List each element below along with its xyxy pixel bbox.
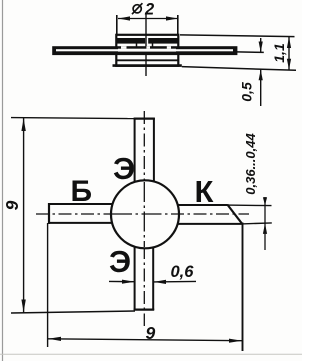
- flange line: [116, 59, 178, 61]
- front lead edge ticks: [136, 43, 138, 48]
- dimension line 9 (bottom): [48, 337, 242, 343]
- dimension 9 (bottom) extension right: [242, 223, 244, 352]
- extension line for 0,36-0,44 bottom (lead bottom continues): [242, 223, 272, 224]
- svg-text:Б: Б: [71, 175, 93, 208]
- dimension 0,6 right segment: [154, 280, 196, 284]
- svg-text:0,6: 0,6: [171, 263, 195, 281]
- svg-text:1,1: 1,1: [271, 43, 287, 63]
- svg-text:К: К: [195, 174, 214, 209]
- svg-text:Э: Э: [113, 151, 135, 186]
- dimension 0,5 lower arrow: [259, 70, 263, 107]
- flange bottom (wider): [113, 64, 182, 67]
- dimension line 9 (left vertical): [21, 118, 25, 313]
- svg-text:0,36...0,44: 0,36...0,44: [243, 133, 258, 195]
- extension line lead bottom (for 0,5): [237, 51, 264, 54]
- dimension 0,5 upper arrow: [259, 38, 263, 52]
- body circle: [111, 180, 179, 248]
- horizontal centerline (dash-dot): [36, 213, 249, 215]
- svg-text:Э: Э: [109, 244, 131, 279]
- lead bar (side view), two heavy edges: [52, 46, 237, 55]
- dimension 0,36-0,44 upper arrow: [263, 197, 267, 223]
- bottom lead (Э): [134, 246, 155, 310]
- extension line bottom (for 1,1 / 0,5): [182, 67, 296, 71]
- extension line left of ⌀2: [116, 15, 118, 35]
- extension line for 0,36-0,44 top: [227, 204, 272, 207]
- dimension 9 (left vertical) extension bottom: [11, 311, 135, 313]
- left lead (Б): [49, 203, 115, 224]
- dimension 9 (bottom) extension left: [47, 223, 49, 347]
- top lead (Э): [134, 118, 155, 183]
- right lead (К) with chamfered end: [176, 205, 242, 224]
- dimension 0,36-0,44 lower arrow: [263, 223, 267, 250]
- svg-text:9: 9: [2, 200, 22, 210]
- svg-text:0,5: 0,5: [239, 82, 255, 102]
- extension line top (for 1,1): [180, 35, 295, 37]
- dimension line ⌀2: [118, 16, 178, 20]
- package cap outline (side view): [116, 35, 178, 66]
- centerline vertical (side view): [145, 13, 147, 76]
- svg-text:9: 9: [146, 323, 156, 343]
- extension line right of ⌀2: [177, 15, 179, 35]
- cap weld band (dark fill): [117, 38, 178, 44]
- dimension ⌀2 symbol: [132, 3, 142, 14]
- scan page bottom edge: [0, 353, 302, 355]
- scan page left edge: [2, 0, 4, 361]
- dimension 9 (left vertical) extension top: [11, 118, 135, 119]
- dimension line 1,1: [287, 37, 291, 70]
- dimension 0,6 left segment: [109, 280, 134, 284]
- centerline cross inside circle: [112, 182, 178, 247]
- vertical centerline (dash-dot): [143, 111, 145, 326]
- svg-text:2: 2: [144, 1, 154, 19]
